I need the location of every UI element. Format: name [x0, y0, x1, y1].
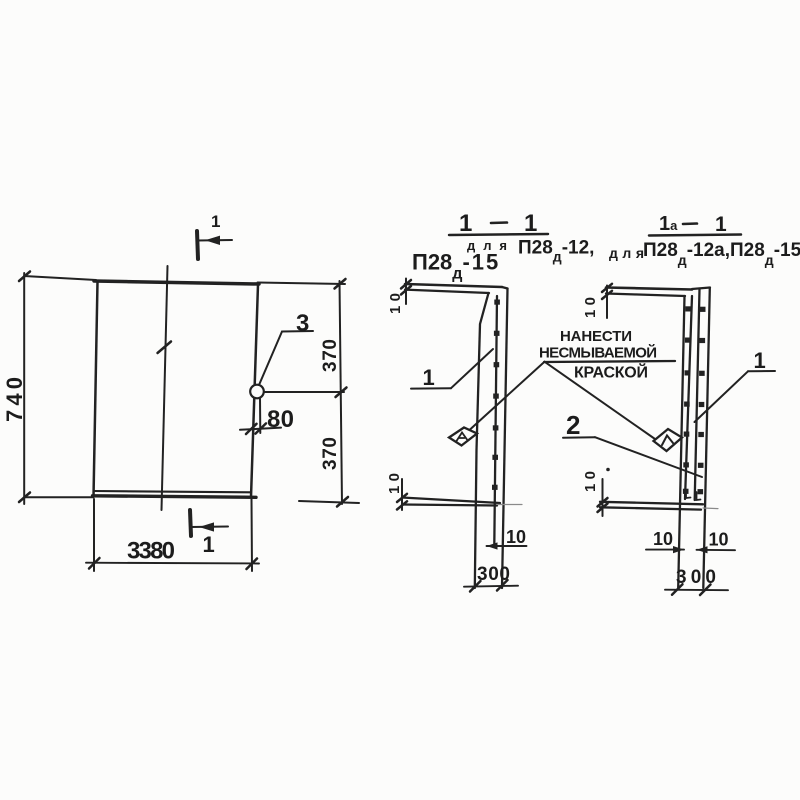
svg-text:КРАСКОЙ: КРАСКОЙ	[574, 363, 648, 382]
svg-text:80: 80	[267, 406, 294, 433]
svg-text:3380: 3380	[127, 538, 175, 565]
svg-text:1: 1	[211, 212, 220, 231]
svg-text:370: 370	[320, 437, 341, 470]
svg-text:300: 300	[676, 567, 716, 588]
svg-text:3: 3	[296, 310, 309, 337]
svg-text:НЕСМЫВАЕМОЙ: НЕСМЫВАЕМОЙ	[539, 344, 657, 362]
svg-text:НАНЕСТИ: НАНЕСТИ	[560, 328, 632, 345]
svg-text:10: 10	[653, 529, 673, 549]
svg-text:1: 1	[524, 210, 537, 237]
svg-text:10: 10	[506, 527, 526, 547]
svg-text:740: 740	[2, 377, 27, 422]
svg-text:1: 1	[459, 210, 472, 237]
svg-text:10: 10	[709, 530, 729, 550]
svg-text:1: 1	[423, 365, 435, 390]
svg-text:300: 300	[477, 564, 510, 585]
svg-text:2: 2	[566, 410, 580, 440]
svg-text:370: 370	[320, 339, 341, 372]
svg-text:1: 1	[754, 348, 766, 373]
svg-text:1: 1	[203, 532, 215, 557]
svg-text:для: для	[609, 245, 644, 261]
svg-text:1: 1	[715, 213, 727, 236]
